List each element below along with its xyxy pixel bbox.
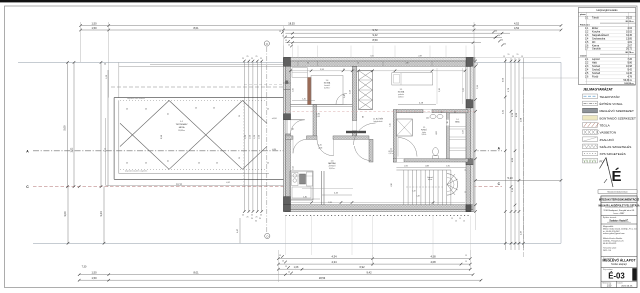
pier block top-right corner xyxy=(466,57,473,66)
thin wall under room f4 xyxy=(291,104,353,106)
terrace wall top xyxy=(114,97,285,99)
svg-text:2021.06.25.: 2021.06.25. xyxy=(621,285,633,287)
svg-text:JELMAGYARÁZAT: JELMAGYARÁZAT xyxy=(583,87,614,92)
svg-text:30: 30 xyxy=(255,221,257,223)
svg-text:Helyiségkimutatás: Helyiségkimutatás xyxy=(596,8,618,12)
dim 1,47 lower left of house xyxy=(239,218,241,243)
svg-text:10,31: 10,31 xyxy=(176,183,183,187)
wall interior v1 xyxy=(352,67,357,140)
brick wall segment (brown) xyxy=(308,78,311,105)
svg-text:+0,18: +0,18 xyxy=(318,148,322,150)
svg-text:25: 25 xyxy=(247,56,249,58)
svg-text:25: 25 xyxy=(239,115,241,117)
svg-text:15: 15 xyxy=(459,218,461,220)
svg-text:25: 25 xyxy=(213,108,215,110)
terrace wall bottom xyxy=(114,178,285,180)
svg-text:3,36: 3,36 xyxy=(316,113,320,115)
title row 1 header xyxy=(601,196,637,203)
bedroom interior dim verticals xyxy=(436,68,438,104)
terrace X hatch xyxy=(120,101,267,170)
ladder shaft with X bracing xyxy=(359,71,373,110)
wall interior h4b xyxy=(333,136,369,139)
section line A xyxy=(33,150,502,152)
dim 4,28 xyxy=(398,104,436,106)
room box szoba 1.4 xyxy=(311,76,343,105)
svg-text:25: 25 xyxy=(195,108,197,110)
svg-text:2,96: 2,96 xyxy=(463,130,465,134)
door arc nappali xyxy=(317,139,334,156)
svg-text:ÉPÍTÉSI VONAL: ÉPÍTÉSI VONAL xyxy=(600,101,623,106)
pantry wardrobe shelves xyxy=(449,113,466,159)
svg-text:É: É xyxy=(611,168,621,185)
svg-text:25: 25 xyxy=(216,163,218,165)
svg-text:30: 30 xyxy=(495,31,497,33)
svg-text:MEGLÉVŐ ÁLLAPOT: MEGLÉVŐ ÁLLAPOT xyxy=(603,257,636,262)
svg-text:1,40: 1,40 xyxy=(426,118,429,120)
svg-text:3,26: 3,26 xyxy=(328,202,332,204)
wall exterior right xyxy=(466,61,471,212)
interior dim line below top wall xyxy=(291,70,466,72)
terrace inner line left xyxy=(118,100,120,173)
wall interior h3 xyxy=(393,159,468,162)
stairs treads xyxy=(396,169,451,171)
svg-text:MOLNÁR LAKÓÉPÜLET FELÚJÍTÁSA: MOLNÁR LAKÓÉPÜLET FELÚJÍTÁSA xyxy=(598,204,639,207)
left dim line pair upper 2 xyxy=(100,62,102,186)
svg-text:56: 56 xyxy=(477,63,479,65)
svg-text:KÖZL.: KÖZL. xyxy=(389,150,394,153)
wall insulation right xyxy=(471,61,474,212)
wall interior h4a xyxy=(286,136,294,139)
door arc from terrace xyxy=(291,120,305,134)
svg-text:90: 90 xyxy=(447,122,449,124)
svg-text:1,06: 1,06 xyxy=(463,88,465,92)
svg-text:18,53: 18,53 xyxy=(319,276,326,280)
svg-text:1,08: 1,08 xyxy=(294,266,299,269)
pier block right wall at stairs xyxy=(466,159,473,165)
svg-text:90: 90 xyxy=(307,63,309,65)
svg-text:1,50: 1,50 xyxy=(91,21,97,25)
tick marks right wall stairs xyxy=(465,169,467,171)
svg-text:hrsz.: 4387: hrsz.: 4387 xyxy=(614,212,626,215)
terrace dotted insulation bottom xyxy=(120,168,267,170)
bottom dimension row a xyxy=(278,258,470,260)
stairs walk line xyxy=(406,186,443,188)
svg-text:25: 25 xyxy=(256,217,258,219)
svg-text:15: 15 xyxy=(508,54,510,56)
svg-text:15: 15 xyxy=(517,54,519,56)
top dimension row 4 xyxy=(285,37,502,39)
title block caption row xyxy=(598,190,637,194)
svg-text:2,30: 2,30 xyxy=(391,183,393,186)
extension lines below house xyxy=(285,216,287,256)
svg-text:É-03: É-03 xyxy=(608,272,625,281)
door arc hall south xyxy=(354,146,371,161)
terrace wall extension to property line xyxy=(118,62,120,97)
svg-text:56,38 m: 56,38 m xyxy=(623,79,632,82)
svg-text:2021 / 04: 2021 / 04 xyxy=(603,250,611,252)
svg-text:25: 25 xyxy=(198,163,200,165)
svg-text:1,28: 1,28 xyxy=(416,196,419,198)
wall insulation top xyxy=(284,57,475,61)
svg-text:+0,34: +0,34 xyxy=(272,118,277,120)
svg-text:2,59: 2,59 xyxy=(477,85,479,89)
svg-text:30: 30 xyxy=(259,218,261,220)
house left dim verticals xyxy=(243,61,245,212)
top dimension row 3 xyxy=(285,32,510,34)
svg-text:25: 25 xyxy=(168,160,170,162)
wall insulation left xyxy=(284,61,286,212)
bottom dimension row b xyxy=(278,263,470,265)
svg-text:90: 90 xyxy=(293,128,295,130)
svg-text:6,92: 6,92 xyxy=(359,265,365,269)
svg-text:25: 25 xyxy=(251,58,253,60)
grid line O vertical dash-dot xyxy=(266,47,268,232)
svg-text:15: 15 xyxy=(521,56,523,58)
svg-text:30: 30 xyxy=(501,40,503,42)
svg-text:1:50: 1:50 xyxy=(607,285,612,287)
svg-text:103,22 m: 103,22 m xyxy=(624,83,633,85)
door arc kitchen doorway xyxy=(293,139,307,153)
pier block left wall mid xyxy=(284,114,291,120)
svg-text:15: 15 xyxy=(288,272,290,274)
svg-text:Műszaki tervdokumentáció: Műszaki tervdokumentáció xyxy=(608,191,628,194)
svg-text:2,08: 2,08 xyxy=(436,131,438,134)
svg-text:1,45: 1,45 xyxy=(302,98,306,100)
svg-text:15: 15 xyxy=(279,255,281,257)
svg-text:18,53: 18,53 xyxy=(288,21,295,25)
svg-text:25: 25 xyxy=(267,109,269,111)
svg-text:FÜRDŐ: FÜRDŐ xyxy=(421,128,428,131)
wall interior h4a2 xyxy=(307,136,318,139)
wall interior h2 xyxy=(396,110,468,113)
window sill marks left wall xyxy=(284,82,291,84)
title row 3 designer xyxy=(601,223,637,225)
svg-text:25: 25 xyxy=(260,58,262,60)
svg-text:3,47: 3,47 xyxy=(344,94,346,98)
svg-text:15: 15 xyxy=(285,40,287,42)
svg-text:3,24: 3,24 xyxy=(99,211,103,217)
grid marker O top xyxy=(264,41,269,46)
svg-text:ZSALUKŐ: ZSALUKŐ xyxy=(600,137,615,142)
svg-text:15: 15 xyxy=(465,261,467,263)
terrace dotted insulation top xyxy=(120,99,267,101)
property line top (telekhatar) xyxy=(18,61,561,63)
svg-text:TÉGLA: TÉGLA xyxy=(600,123,611,128)
retaining wall line xyxy=(150,64,285,66)
svg-text:8,01: 8,01 xyxy=(193,270,199,274)
svg-text:VASBETON: VASBETON xyxy=(600,131,617,135)
svg-text:Tároló: Tároló xyxy=(592,17,599,20)
title row 7 scale date xyxy=(601,280,637,282)
svg-text:4,52: 4,52 xyxy=(514,21,520,25)
wall exterior top xyxy=(285,61,473,66)
eaves line right of house xyxy=(473,57,561,59)
bottom dimension row d xyxy=(79,274,473,276)
door arc bathroom xyxy=(398,138,417,157)
wall exterior left xyxy=(286,61,291,212)
door opening left wall xyxy=(286,120,291,134)
north small tick xyxy=(604,179,607,183)
stairs winder semicircle xyxy=(447,174,458,195)
house interior background xyxy=(284,57,475,211)
svg-text:8,50: 8,50 xyxy=(372,38,378,42)
svg-text:25: 25 xyxy=(260,215,262,217)
svg-text:25: 25 xyxy=(168,113,170,115)
svg-text:15: 15 xyxy=(463,221,465,223)
svg-text:SZOBA: SZOBA xyxy=(324,82,331,85)
svg-text:3,34: 3,34 xyxy=(316,116,319,118)
svg-text:20,22 m: 20,22 m xyxy=(625,21,633,23)
svg-text:2,30: 2,30 xyxy=(439,88,441,92)
closet top-left xyxy=(292,68,308,77)
terrace outer edge line left xyxy=(105,118,107,185)
left dim line pair upper xyxy=(67,62,69,186)
svg-text:4,34: 4,34 xyxy=(331,254,337,258)
svg-text:15: 15 xyxy=(357,63,359,65)
svg-text:15: 15 xyxy=(279,31,281,33)
svg-text:TELEKHATÁR: TELEKHATÁR xyxy=(600,95,621,99)
stairs dim line xyxy=(396,167,466,169)
svg-text:15: 15 xyxy=(285,266,287,268)
building line (epitesi vonal) dashed xyxy=(111,86,285,88)
svg-text:Datum:: Datum: xyxy=(618,281,624,284)
wall interior v5 xyxy=(369,139,373,162)
door gap wall h3 xyxy=(396,159,404,162)
svg-text:9,42: 9,42 xyxy=(366,270,372,274)
door gap wall h2 xyxy=(423,110,432,113)
toilet xyxy=(433,148,439,156)
svg-text:30: 30 xyxy=(251,218,253,220)
svg-text:25: 25 xyxy=(126,109,128,111)
svg-text:25: 25 xyxy=(242,215,244,217)
svg-text:25: 25 xyxy=(267,163,269,165)
svg-text:30: 30 xyxy=(498,35,500,37)
room schedule table frame xyxy=(578,8,635,85)
svg-text:TERTERASZ: TERTERASZ xyxy=(176,123,189,126)
extension lines above house xyxy=(283,46,285,58)
svg-text:7,30: 7,30 xyxy=(82,266,87,269)
top dimension row 2 xyxy=(81,29,561,31)
window marks top wall right xyxy=(382,61,384,66)
grid line right dash xyxy=(522,90,524,258)
svg-text:Megrendelő:: Megrendelő: xyxy=(603,225,614,228)
svg-text:-0,34: -0,34 xyxy=(272,149,276,151)
left dim line lower 2 xyxy=(103,187,105,244)
svg-text:9,72: 9,72 xyxy=(372,28,378,32)
top extension lines xyxy=(80,22,82,62)
svg-text:2,59: 2,59 xyxy=(350,90,352,94)
pier block top-left corner xyxy=(284,57,291,66)
svg-text:15: 15 xyxy=(465,255,467,257)
north arrow line xyxy=(606,158,613,188)
kitchen stove dark xyxy=(300,174,306,184)
title block frame xyxy=(601,196,637,288)
svg-text:2,20: 2,20 xyxy=(293,88,295,92)
window right wall upper xyxy=(466,67,471,100)
dining edge line xyxy=(302,187,353,189)
svg-text:15: 15 xyxy=(455,221,457,223)
svg-text:-0,62: -0,62 xyxy=(226,182,230,184)
svg-text:25: 25 xyxy=(247,217,249,219)
svg-text:XPS SZIGETELÉS: XPS SZIGETELÉS xyxy=(600,151,626,156)
svg-text:25: 25 xyxy=(126,163,128,165)
kitchen sink xyxy=(292,173,299,186)
door arc room F4 xyxy=(336,94,347,105)
svg-text:Gardrób: Gardrób xyxy=(592,48,601,51)
kitchen counter xyxy=(290,171,313,200)
grid marker O bottom xyxy=(265,233,270,238)
svg-text:molnar.gabor@gmail.com: molnar.gabor@gmail.com xyxy=(603,232,625,235)
dim line 5,10 to property corner xyxy=(473,179,561,181)
svg-text:4,34: 4,34 xyxy=(331,260,337,264)
bottom dimension row e xyxy=(79,279,481,281)
bed xyxy=(392,73,433,85)
svg-text:26,72: 26,72 xyxy=(626,48,633,51)
svg-text:60: 60 xyxy=(454,111,456,113)
svg-text:20,22: 20,22 xyxy=(626,17,633,20)
left dim line lower 1 xyxy=(67,187,69,244)
door gap wall v1 xyxy=(352,121,357,131)
svg-text:4,34: 4,34 xyxy=(334,193,338,195)
stairs radial treads xyxy=(447,179,458,184)
top dimension row 5 xyxy=(285,42,481,44)
svg-text:hideg: hideg xyxy=(422,132,426,134)
svg-text:1116 Budapest, Fonyód utca 65.: 1116 Budapest, Fonyód utca 65. xyxy=(603,209,635,212)
section line C (pink dashed) xyxy=(33,186,502,188)
house right dim verticals xyxy=(504,58,506,250)
door arc hall north xyxy=(354,123,376,145)
svg-text:NAPPALI: NAPPALI xyxy=(328,162,336,165)
door leaf left wall xyxy=(291,119,305,121)
svg-text:1,20: 1,20 xyxy=(318,145,321,147)
property line bottom xyxy=(33,242,561,244)
svg-text:SZOBA: SZOBA xyxy=(398,91,405,94)
svg-text:1,35: 1,35 xyxy=(390,123,392,126)
kitchen island edge xyxy=(321,171,323,205)
svg-text:4,58: 4,58 xyxy=(430,254,436,258)
svg-text:25: 25 xyxy=(256,56,258,58)
svg-text:5,10: 5,10 xyxy=(507,176,513,180)
svg-text:24: 24 xyxy=(104,64,106,66)
svg-text:15: 15 xyxy=(512,56,514,58)
leader line to table xyxy=(522,77,579,79)
terrace dotted right extension xyxy=(242,100,244,186)
svg-text:15: 15 xyxy=(288,45,290,47)
svg-text:Szakács Árpád É.: Szakács Árpád É. xyxy=(609,219,629,222)
svg-text:25: 25 xyxy=(239,157,241,159)
wall interior v4 xyxy=(446,113,449,159)
wall interior v3 xyxy=(313,105,317,140)
svg-text:3,00: 3,00 xyxy=(63,211,67,217)
svg-text:90: 90 xyxy=(363,116,365,118)
pier block bottom-left corner xyxy=(284,205,291,212)
bottom extension lines xyxy=(277,250,279,282)
svg-text:Méretarány:: Méretarány: xyxy=(603,281,613,284)
svg-text:BONTANDÓ SZERKEZET: BONTANDÓ SZERKEZET xyxy=(600,115,636,120)
pier block bottom-right corner xyxy=(466,205,471,212)
svg-text:3,56: 3,56 xyxy=(320,69,324,71)
svg-text:15: 15 xyxy=(282,36,284,38)
shower with X xyxy=(396,119,412,136)
dark threshold beam xyxy=(346,131,366,133)
svg-text:4,08: 4,08 xyxy=(430,260,436,264)
north arrowhead xyxy=(600,158,607,169)
sheet top black bar xyxy=(0,0,640,2)
top dimension row 1 xyxy=(81,25,561,27)
svg-text:8,01: 8,01 xyxy=(193,26,199,30)
svg-text:Lépcső: Lépcső xyxy=(427,177,433,179)
pier block left wall lower xyxy=(284,197,291,205)
bottom dimension row c xyxy=(278,268,470,270)
svg-text:1,50: 1,50 xyxy=(91,26,97,30)
window marks top wall left xyxy=(297,61,299,66)
svg-text:1,50: 1,50 xyxy=(91,270,97,274)
wall interior v2 xyxy=(393,110,396,163)
svg-text:3,94: 3,94 xyxy=(293,166,295,170)
washbasin xyxy=(430,114,436,118)
svg-text:15: 15 xyxy=(451,218,453,220)
svg-text:1.6: 1.6 xyxy=(456,119,458,121)
svg-text:1,90: 1,90 xyxy=(446,166,450,168)
svg-text:Fürdő: Fürdő xyxy=(592,75,599,78)
svg-text:SZÁLAS SZIGETELÉS: SZÁLAS SZIGETELÉS xyxy=(600,144,632,149)
terrace wall left xyxy=(113,98,115,180)
svg-text:MEGLÉVŐ SZERKEZET: MEGLÉVŐ SZERKEZET xyxy=(600,108,634,113)
roof projection dashed pink xyxy=(284,110,475,112)
svg-text:9,42: 9,42 xyxy=(372,33,378,37)
extension line right of house xyxy=(475,57,477,230)
svg-text:06-30-765-4321: 06-30-765-4321 xyxy=(603,243,616,245)
terrace outer edge line bottom xyxy=(106,184,286,186)
wall insulation bottom xyxy=(286,210,474,212)
svg-text:25: 25 xyxy=(145,109,147,111)
title row 6 drawing number xyxy=(601,267,637,269)
svg-text:1,19: 1,19 xyxy=(412,191,415,193)
svg-text:25: 25 xyxy=(145,163,147,165)
insulation dots below bottom wall xyxy=(286,214,471,216)
site edge line xyxy=(119,65,286,67)
pier block right wall mid xyxy=(466,100,473,108)
svg-text:20,58 m: 20,58 m xyxy=(178,130,185,132)
svg-text:30: 30 xyxy=(504,44,506,46)
legend rows xyxy=(583,94,598,99)
dim line above bottom wall xyxy=(290,202,465,204)
door gap wall v4 xyxy=(446,120,449,126)
svg-text:4,52: 4,52 xyxy=(514,26,520,30)
svg-text:2,39: 2,39 xyxy=(405,63,408,65)
svg-text:15: 15 xyxy=(282,261,284,263)
svg-text:80,78 m: 80,78 m xyxy=(625,52,633,54)
svg-text:Építész tervező:: Építész tervező: xyxy=(603,216,617,219)
drawing number black tab xyxy=(632,268,636,281)
svg-text:5,92: 5,92 xyxy=(370,55,373,57)
terrace inner line bottom xyxy=(119,173,269,175)
kitchen fridge xyxy=(307,172,313,186)
title row 2 project xyxy=(601,215,637,217)
svg-text:25: 25 xyxy=(242,58,244,60)
property line right xyxy=(560,62,562,243)
svg-text:5,00: 5,00 xyxy=(63,125,67,131)
svg-text:56: 56 xyxy=(343,69,345,71)
svg-text:25: 25 xyxy=(251,215,253,217)
svg-text:2,39: 2,39 xyxy=(418,55,421,57)
wall exterior bottom xyxy=(286,205,474,210)
svg-text:1,40: 1,40 xyxy=(303,197,307,199)
title row 5 drawing name xyxy=(601,256,637,258)
svg-text:Tetőtér alaprajz: Tetőtér alaprajz xyxy=(611,263,628,266)
svg-text:1,50: 1,50 xyxy=(91,276,97,280)
svg-text:JÁRDA: JÁRDA xyxy=(179,126,186,129)
